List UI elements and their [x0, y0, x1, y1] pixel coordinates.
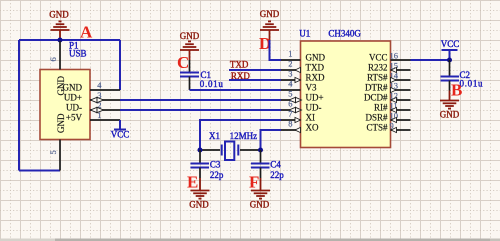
svg-text:7: 7: [288, 109, 292, 119]
svg-text:6: 6: [48, 57, 58, 61]
capacitor C4: [260, 150, 262, 164]
junction at P1 pin 6 / GND: [58, 38, 63, 43]
svg-text:GND: GND: [56, 113, 66, 133]
IC U1 body: [301, 41, 391, 148]
svg-text:C3: C3: [210, 160, 221, 170]
svg-text:RXD: RXD: [306, 73, 326, 83]
svg-text:F: F: [249, 173, 259, 192]
P1 pin 5 (GND, bottom vertical): [59, 140, 61, 171]
svg-text:TXD: TXD: [230, 60, 249, 70]
wire: RXD net: [229, 79, 281, 81]
U1 pin 8 (XO, output arrow): [281, 129, 301, 131]
wire: C1 to U1 pin 4 (V3): [190, 89, 282, 91]
svg-text:VCC: VCC: [369, 53, 388, 63]
svg-text:+5V: +5V: [66, 113, 83, 123]
svg-text:CH340G: CH340G: [328, 29, 361, 39]
ground: GND power symbol below C2 (net B): [440, 91, 459, 109]
capacitor C3: [199, 150, 201, 164]
U1 pin 10 (DSR#, input arrow): [391, 119, 411, 121]
U1 pin 1 (GND): [281, 59, 301, 61]
svg-text:B: B: [451, 81, 462, 100]
P1 pin 2 (UD-) with bidirectional arrows: [90, 109, 120, 111]
svg-text:0.01u: 0.01u: [460, 79, 484, 89]
U1 pin 9 (CTS#, input arrow): [391, 129, 411, 131]
svg-text:E: E: [187, 173, 198, 192]
connector P1 body: [40, 70, 90, 140]
svg-text:UD+: UD+: [64, 93, 82, 103]
svg-text:XO: XO: [306, 123, 319, 133]
wire: D GND down to U1 pin 1: [270, 40, 282, 60]
wire: bottom segment to P1 pin 5: [19, 170, 60, 172]
svg-text:16: 16: [390, 51, 399, 61]
svg-text:C4: C4: [270, 160, 281, 170]
capacitor C1: [189, 60, 191, 73]
ground: GND power symbol below C3 (net E): [191, 178, 210, 199]
svg-text:22p: 22p: [210, 170, 224, 180]
P1 pin 4 (GND): [90, 89, 120, 91]
svg-text:VCC: VCC: [441, 39, 460, 49]
P1 pin 3 (UD+) with bidirectional arrows: [90, 99, 120, 101]
wire: VCC net from U1 pin 16 to C2 junction: [411, 59, 450, 61]
ground: GND power symbol above P1 (net A): [51, 21, 70, 40]
ground: GND power symbol above C1 (net C): [180, 41, 199, 60]
power VCC below P1 pin 1: [114, 120, 126, 130]
svg-text:CTS#: CTS#: [366, 123, 388, 133]
svg-text:GND: GND: [49, 10, 69, 20]
svg-text:DSR#: DSR#: [365, 113, 388, 123]
svg-text:6: 6: [288, 99, 292, 109]
svg-text:V3: V3: [306, 83, 317, 93]
svg-text:R232: R232: [368, 63, 388, 73]
wire: top GND bus from left loop to right vertical: [19, 39, 120, 41]
U1 pin 3 (RXD, input arrow): [281, 79, 301, 81]
svg-text:1: 1: [288, 49, 292, 59]
svg-text:1: 1: [97, 110, 101, 120]
junction at VCC / C2: [447, 58, 452, 63]
power VCC above C2: [442, 50, 458, 60]
ground: GND power symbol below C4 (net F): [251, 178, 270, 199]
svg-text:USB: USB: [69, 49, 87, 59]
svg-text:A: A: [80, 23, 93, 42]
U1 pin 4 (V3): [281, 89, 301, 91]
svg-text:5: 5: [48, 150, 58, 154]
svg-text:C: C: [177, 53, 189, 72]
svg-text:XI: XI: [306, 113, 316, 123]
U1 pin 11 (RI#, input arrow): [391, 109, 411, 111]
svg-text:TXD: TXD: [306, 63, 325, 73]
svg-text:22p: 22p: [270, 170, 284, 180]
capacitor C2: [449, 60, 451, 77]
junction: left crystal node: [198, 148, 203, 153]
wire: UD+ net from P1 to U1 pin 5: [120, 99, 281, 101]
U1 pin 6 (UD-, bidirectional arrows): [281, 109, 301, 111]
svg-text:GND: GND: [250, 200, 270, 210]
svg-text:RI#: RI#: [374, 103, 388, 113]
svg-text:12MHz: 12MHz: [230, 131, 258, 141]
wire: right vertical from top bus to P1 pin 4: [119, 40, 121, 90]
crystal X1: [200, 149, 220, 151]
svg-text:GND: GND: [260, 9, 280, 19]
svg-text:UD+: UD+: [306, 93, 324, 103]
svg-text:GND: GND: [189, 200, 209, 210]
U1 pin 16 (VCC): [391, 59, 411, 61]
svg-text:UD-: UD-: [306, 103, 322, 113]
U1 pin 5 (UD+, bidirectional arrows): [281, 99, 301, 101]
P1 pin 1 (+5V): [90, 119, 120, 121]
svg-text:VCC: VCC: [111, 130, 130, 140]
P1 pin 6 (GND, top vertical): [59, 41, 61, 70]
wire: TXD net: [229, 69, 281, 71]
svg-text:3: 3: [288, 69, 292, 79]
U1 pin 7 (XI, input arrow): [281, 119, 301, 121]
ground: GND power symbol above U1 pin 1 (net D): [260, 21, 279, 40]
svg-text:X1: X1: [209, 131, 220, 141]
svg-text:UD-: UD-: [66, 103, 82, 113]
svg-text:GND: GND: [306, 53, 326, 63]
U1 pin 12 (DCD#, input arrow): [391, 99, 411, 101]
svg-text:8: 8: [288, 119, 292, 129]
svg-text:2: 2: [288, 59, 292, 69]
wire: XO net from right crystal node to U1 pin 8: [261, 130, 282, 150]
svg-text:GND: GND: [63, 83, 83, 93]
svg-text:DCD#: DCD#: [364, 93, 388, 103]
U1 pin 14 (RTS#, output arrow): [391, 79, 411, 81]
svg-text:0.01u: 0.01u: [200, 79, 224, 89]
svg-text:RTS#: RTS#: [367, 73, 388, 83]
svg-text:U1: U1: [299, 29, 310, 39]
svg-text:DTR#: DTR#: [365, 83, 388, 93]
U1 pin 15 (R232, input arrow): [391, 69, 411, 71]
U1 pin 2 (TXD, output arrow): [281, 69, 301, 71]
bottom scrollbar strip: [0, 239, 500, 241]
wire: UD- net from P1 to U1 pin 6: [120, 109, 281, 111]
wire: left vertical of P1 loop: [18, 40, 20, 171]
svg-text:GND: GND: [440, 110, 460, 120]
junction: right crystal node: [258, 148, 263, 153]
wire: XI net from left crystal node to U1 pin 7: [200, 120, 281, 150]
svg-text:GND: GND: [180, 31, 200, 41]
U1 pin 13 (DTR#, output arrow): [391, 89, 411, 91]
svg-text:5: 5: [288, 89, 292, 99]
